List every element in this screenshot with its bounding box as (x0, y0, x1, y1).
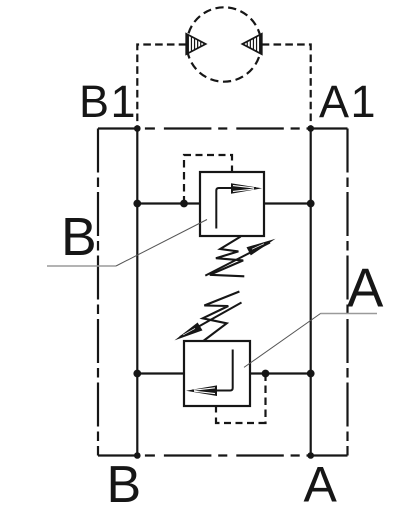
valve V2 internal flow path (192, 350, 233, 391)
svg-text:A1: A1 (319, 76, 377, 127)
spring V2 (203, 292, 240, 342)
svg-text:A: A (347, 258, 384, 319)
spring V1 (210, 237, 245, 277)
wire main right vertical (A line) (310, 129, 312, 456)
wire dashed motor line A1 side (262, 45, 311, 129)
enclosure boundary (dash-dot) top (98, 127, 348, 129)
node V1 left junction (133, 200, 141, 208)
wire V1 right (264, 202, 311, 204)
node A1 port dot (307, 125, 314, 132)
svg-text:A: A (304, 457, 338, 513)
enclosure boundary bottom (98, 454, 348, 456)
svg-text:B1: B1 (79, 76, 137, 127)
node V2 left junction (133, 370, 141, 378)
wire V2 left (137, 372, 184, 374)
node B1 port dot (134, 125, 141, 132)
leader line for B (47, 265, 116, 267)
svg-text:B: B (107, 456, 142, 514)
adjust arrow V1 (205, 243, 270, 276)
enclosure boundary left (97, 129, 99, 456)
valve V1 internal arrowhead (231, 183, 262, 194)
valve V2 (bottom counterbalance valve) (137, 292, 310, 424)
node V2 right junction (307, 370, 315, 378)
valve V2 internal arrowhead (186, 385, 217, 396)
valve V1 body (200, 172, 264, 236)
wire V2 right (250, 372, 311, 374)
node V1 pilot junction (180, 200, 188, 208)
enclosure boundary right (346, 129, 348, 456)
leader line for A (321, 313, 378, 315)
pilot line V2 (dashed) (216, 374, 266, 424)
svg-text:B: B (61, 208, 97, 267)
node V1 right junction (307, 200, 315, 208)
node V2 pilot junction (262, 370, 270, 378)
wire dashed motor line B1 side (137, 45, 186, 129)
adjust arrow V2 (180, 303, 242, 338)
node A port dot (307, 452, 314, 459)
motor triangle right (hatched) (242, 32, 261, 57)
pilot line V1 (dashed) (184, 155, 232, 204)
valve V2 body (184, 341, 250, 406)
valve V1 internal flow path (216, 188, 256, 229)
valve V1 (top counterbalance valve) (137, 155, 310, 276)
wire main left vertical (B line) (136, 129, 138, 456)
node B port dot (134, 452, 141, 459)
motor triangle left (hatched) (186, 32, 206, 57)
motor M1 (dashed circle) (187, 7, 261, 81)
wire V1 left (137, 202, 200, 204)
